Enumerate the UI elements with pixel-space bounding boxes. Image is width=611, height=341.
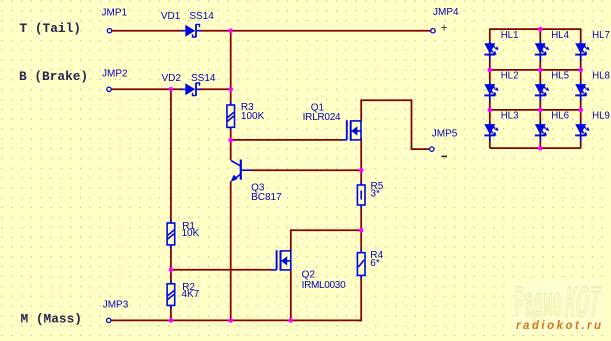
node LED matrix row3 left junction	[488, 108, 493, 113]
LED HL8	[575, 82, 589, 102]
wire tail rail left (JMP1 to VD1)	[112, 30, 183, 32]
wire R2 bottom to ground rail	[170, 305, 172, 320]
node LED matrix bottom center junction	[538, 146, 543, 151]
svg-text:JMP4: JMP4	[433, 7, 459, 18]
svg-text:10K: 10K	[182, 228, 200, 239]
resistor R4	[357, 249, 365, 279]
svg-text:IRML0030: IRML0030	[302, 280, 346, 291]
svg-text:6*: 6*	[370, 258, 380, 269]
svg-text:T (Tail): T (Tail)	[20, 21, 81, 36]
wire Q3 emitter down to ground rail	[230, 181, 232, 320]
svg-text:VD2: VD2	[162, 73, 182, 84]
svg-text:HL4: HL4	[551, 30, 569, 41]
LED HL1	[484, 41, 498, 61]
svg-text:КОТ: КОТ	[562, 277, 603, 325]
wire Q1 gate line	[231, 139, 342, 141]
wire tail rail right (VD1 cathode to JMP4)	[199, 30, 431, 32]
node VD2 cathode junction	[228, 87, 233, 92]
svg-text:radiokot.ru: radiokot.ru	[516, 320, 604, 332]
transistor Q2 IRML0030 (N-MOSFET)	[271, 250, 291, 271]
node VD1 cathode junction	[228, 28, 233, 33]
node ground rail R2 junction	[169, 318, 174, 323]
LED HL5	[535, 82, 549, 102]
transistor Q3 BC817	[231, 160, 252, 182]
wire R5 bottom to R4 node	[360, 205, 362, 230]
wire ground rail (JMP3 to R4 corner)	[111, 319, 361, 321]
wire R5 node to R5 top	[360, 170, 362, 185]
wire Q3 base line to R5 node	[251, 169, 362, 171]
wire Q2 source to ground rail	[290, 268, 292, 320]
svg-text:SS14: SS14	[191, 73, 216, 84]
wire brake junction down to R1 top	[170, 89, 172, 223]
resistor R2	[167, 280, 175, 309]
svg-text:SS14: SS14	[189, 11, 214, 22]
wire Q1 drain to JMP5	[361, 100, 429, 149]
wire R3 bottom to Q3 collector	[230, 127, 232, 160]
svg-text:4K7: 4K7	[182, 289, 200, 300]
pin JMP4 terminal	[431, 29, 435, 33]
wire LED matrix bottom line	[490, 147, 581, 149]
wire LED matrix middle rail	[539, 29, 541, 148]
LED HL2	[484, 82, 498, 102]
svg-text:HL9: HL9	[592, 110, 610, 121]
svg-text:BC817: BC817	[251, 192, 282, 203]
LED HL3	[484, 122, 498, 142]
diode VD1 SS14	[181, 24, 201, 37]
svg-text:HL8: HL8	[592, 71, 610, 82]
wire Q1 source to R5 node	[360, 138, 362, 170]
wire R4 node to R4 top	[360, 230, 362, 252]
resistor R1	[167, 220, 175, 249]
svg-text:100K: 100K	[241, 111, 265, 122]
pin JMP5 terminal	[430, 147, 434, 151]
wire vertical VD1/VD2 cathode bus down to R3 top	[230, 31, 232, 105]
pin JMP2 terminal	[107, 87, 111, 91]
svg-text:IRLR024: IRLR024	[303, 112, 341, 123]
node ground rail Q2 source junction	[289, 318, 294, 323]
node R5 / R4 / Q2 drain junction	[359, 228, 364, 233]
pin JMP3 terminal	[107, 318, 111, 322]
wire R4 bottom to ground rail corner	[358, 275, 361, 320]
wire brake rail left (JMP2 to VD2)	[111, 88, 183, 90]
svg-text:JMP5: JMP5	[432, 129, 458, 140]
svg-text:Q2: Q2	[302, 270, 316, 281]
resistor R5	[357, 182, 365, 209]
node brake/R1 junction	[169, 87, 174, 92]
svg-text:HL5: HL5	[551, 71, 569, 82]
svg-text:JMP1: JMP1	[102, 8, 128, 19]
svg-text:3*: 3*	[371, 188, 381, 199]
node LED matrix row3 right junction	[578, 108, 583, 113]
node LED matrix row2 left junction	[488, 68, 493, 73]
node R1 / R2 / Q2 gate junction	[169, 268, 174, 273]
node LED matrix row3 center junction	[538, 108, 543, 113]
node LED matrix top center junction	[538, 27, 543, 32]
wire LED matrix row line 2	[490, 69, 581, 71]
pin JMP1 terminal	[107, 29, 111, 33]
label - (JMP5 polarity)	[442, 155, 448, 157]
resistor R3	[227, 102, 235, 131]
svg-text:+: +	[441, 23, 448, 35]
wire Q2 drain up and right to R4 node	[291, 230, 361, 252]
node LED matrix row2 center junction	[538, 68, 543, 73]
svg-text:M (Mass): M (Mass)	[21, 311, 82, 326]
svg-text:JMP2: JMP2	[102, 68, 128, 79]
svg-text:Радио: Радио	[515, 277, 562, 325]
svg-text:HL1: HL1	[501, 30, 519, 41]
node LED matrix row2 right junction	[578, 68, 583, 73]
wire brake rail right (VD2 cathode to bus)	[199, 88, 231, 90]
LED HL9	[575, 122, 589, 142]
svg-text:JMP3: JMP3	[103, 300, 129, 311]
logo watermark panel	[514, 280, 603, 331]
node Q1 source / Q3 base / R5 junction	[359, 168, 364, 173]
node ground rail Q3 emitter junction	[228, 318, 233, 323]
LED HL6	[535, 122, 549, 142]
transistor Q1 IRLR024 (N-MOSFET)	[341, 120, 361, 141]
wire LED matrix row line 3	[490, 109, 581, 111]
wire R1 bottom through node to R2 top	[170, 245, 172, 284]
svg-text:HL7: HL7	[592, 30, 610, 41]
wire LED matrix top row	[490, 29, 581, 148]
svg-text:HL3: HL3	[501, 110, 519, 121]
node R3 bottom / Q1 gate junction	[228, 138, 233, 143]
wire Q2 gate line	[171, 269, 272, 271]
svg-text:B (Brake): B (Brake)	[19, 69, 88, 84]
diode VD2 SS14	[181, 83, 201, 96]
svg-text:HL6: HL6	[551, 110, 569, 121]
LED HL7	[575, 41, 589, 61]
LED HL4	[535, 41, 549, 61]
svg-text:HL2: HL2	[501, 71, 519, 82]
svg-text:VD1: VD1	[161, 11, 181, 22]
